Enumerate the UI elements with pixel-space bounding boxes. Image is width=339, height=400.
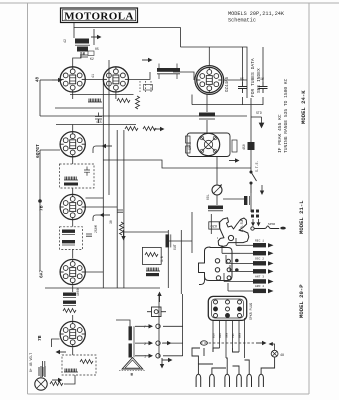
svg-text:OUT: OUT <box>173 244 177 250</box>
wire left lamp drop <box>42 361 44 377</box>
MOTOROLA logo box <box>61 8 138 23</box>
wire row3 connect <box>135 355 152 357</box>
wire mid horizontal y=198 <box>86 197 104 199</box>
resistor R2 <box>125 127 138 131</box>
wire V2 to IF1 <box>129 72 150 79</box>
wire rows right connect <box>163 326 183 356</box>
svg-text:SPKR PLUG: SPKR PLUG <box>249 303 253 320</box>
socket terminal row 3 <box>144 354 160 360</box>
svg-text:STD: STD <box>256 111 262 115</box>
svg-text:MODELS 20P,211,24K: MODELS 20P,211,24K <box>228 11 285 17</box>
svg-text:48: 48 <box>37 76 41 82</box>
svg-text:BLK: BLK <box>213 333 216 338</box>
svg-text:B+ 4B VOLT: B+ 4B VOLT <box>29 353 33 372</box>
choke row 6 <box>240 285 274 293</box>
svg-text:OZ44A5: OZ44A5 <box>226 76 230 92</box>
coil L9 below box <box>146 268 160 272</box>
arrow loom right <box>256 341 267 345</box>
wire left feed vertical <box>191 212 193 253</box>
capacitor C5 right of T3 <box>86 234 92 236</box>
wire right vertical x=251 <box>250 98 252 171</box>
resistor R3 <box>143 127 156 131</box>
coil L5 in T2 <box>64 183 78 186</box>
wire top bus <box>74 23 181 47</box>
svg-text:10: 10 <box>81 52 85 56</box>
wire left drop from antenna coil <box>73 28 75 38</box>
screen coil L2 <box>88 99 102 103</box>
wire long vertical x=103 <box>102 79 104 160</box>
small box pair x=186-190 <box>186 136 191 153</box>
wire left vertical x=40 mid <box>39 150 41 270</box>
socket lead labels rotated <box>213 333 242 338</box>
arrow IF arrow <box>142 58 153 62</box>
wire row1 connect <box>135 325 152 327</box>
dial lever cam plate <box>218 218 249 247</box>
wire y=232 run <box>124 231 168 233</box>
volume pot VR1 <box>212 184 222 195</box>
note IF PEAK 455 KC TUNING RANGE <box>277 78 289 153</box>
cable loom dashed <box>200 341 254 345</box>
wire osc stack to V7 <box>72 315 74 321</box>
wire IF box to V5 <box>72 188 74 194</box>
wire V5 bottom <box>72 220 74 227</box>
dashed gang link <box>140 81 151 92</box>
svg-text:1.B: 1.B <box>160 256 164 262</box>
svg-text:05: 05 <box>95 47 99 51</box>
wire section bottom bus <box>40 115 247 117</box>
oscillator coil L12 <box>63 293 76 298</box>
choke row 4 <box>240 269 274 274</box>
note FOR TUBES DATA SEE INDEX <box>250 58 262 97</box>
svg-text:FOR TUBES DATA: FOR TUBES DATA <box>250 58 256 97</box>
resistor R9 in box <box>80 360 93 364</box>
wires bracket to chokes <box>222 238 240 291</box>
plug prong 5 <box>247 374 252 387</box>
svg-text:455: 455 <box>96 120 102 124</box>
resistor R1 <box>117 99 130 103</box>
wire mid verticals x=117 <box>116 130 118 288</box>
svg-text:7B: 7B <box>39 205 45 211</box>
label cluster above V1 <box>81 47 99 61</box>
svg-text:OSC 2: OSC 2 <box>255 258 264 261</box>
socket lead wires down <box>213 318 245 358</box>
wire pot area to right column <box>223 193 251 212</box>
arrow into V4 <box>102 144 113 148</box>
choke row 1 <box>240 240 274 248</box>
wire upper right bus <box>181 47 248 98</box>
arrow antenna wave <box>91 35 102 39</box>
plug prong 3 <box>225 374 230 387</box>
capacitor C6 <box>117 210 123 212</box>
capacitor C1 trimmer <box>80 52 88 57</box>
svg-text:7B: 7B <box>37 335 43 341</box>
tuning gang box <box>187 133 230 157</box>
trimmer box right of gang <box>232 140 237 152</box>
coil comb right y199 <box>244 196 249 205</box>
wire long vertical x=109 <box>108 60 110 195</box>
svg-text:30: 30 <box>109 220 113 224</box>
tube V4 6Q7GT <box>60 132 85 157</box>
plug prong 4 <box>237 374 242 387</box>
wire section divider y=288 <box>45 287 160 289</box>
tube V5 7B <box>60 194 85 219</box>
label 6 terminal row 1 <box>144 324 160 330</box>
coil L14 in box <box>64 369 78 373</box>
svg-text:48: 48 <box>280 354 284 358</box>
pilot jewel circle 48 <box>269 342 279 357</box>
wire x=182.6 vertical <box>182 294 184 356</box>
arrow lamp lead <box>52 378 63 382</box>
junction dot left margin <box>38 199 42 203</box>
wire left AVC run <box>40 79 52 81</box>
svg-text:BRN: BRN <box>239 333 242 338</box>
tube V1 6K7 IF amp <box>60 67 85 92</box>
svg-text:1000: 1000 <box>76 288 80 296</box>
svg-text:VOL: VOL <box>206 194 210 200</box>
wire top right stubs <box>243 47 264 105</box>
choke row 3 <box>240 258 274 266</box>
ground arrow down at x=251 <box>251 117 264 128</box>
svg-text:MOTOROLA: MOTOROLA <box>64 11 134 23</box>
svg-text:250M: 250M <box>94 225 98 233</box>
wire V3 top lead <box>208 47 210 65</box>
wire V4 bottom to IF box <box>72 157 74 164</box>
filter dashed box <box>62 355 96 375</box>
plug prong 2 <box>210 374 215 387</box>
svg-text:ANT 3: ANT 3 <box>255 276 264 279</box>
arrow into V5 <box>100 213 111 217</box>
wire V3 bottom to gang <box>206 95 208 113</box>
IF transformer T3 dashed box <box>60 227 83 250</box>
cathode bus wire <box>70 94 134 96</box>
IF transformer T1 comb <box>157 64 180 80</box>
wire x=159 vertical <box>158 294 160 357</box>
wire V4 left to margin <box>40 149 60 151</box>
arrow down right col <box>260 185 264 195</box>
wire V6 bottom <box>72 286 74 289</box>
wire antenna coil to V1 <box>73 52 81 67</box>
svg-text:K2: K2 <box>90 57 94 61</box>
oscillator coil L13 <box>63 301 76 306</box>
arrow at R3 <box>154 127 165 131</box>
mounting bracket with holes <box>199 247 239 285</box>
wire hook V5 <box>93 215 102 221</box>
IF transformer T2 dashed box <box>60 164 95 188</box>
svg-text:REC 1: REC 1 <box>255 240 264 243</box>
wire L16 top hook <box>116 320 130 357</box>
svg-text:2: 2 <box>144 343 146 347</box>
svg-text:41: 41 <box>92 74 96 78</box>
small box label top <box>88 51 94 56</box>
arrow up at vibrator <box>157 292 161 303</box>
svg-text:RED: RED <box>219 333 222 338</box>
choke row 2 <box>240 251 274 256</box>
osc coil L3 comb <box>199 113 215 120</box>
wire x=103 lower run <box>102 160 104 288</box>
arrow mid right <box>229 158 240 162</box>
coil L10 below box <box>146 273 159 276</box>
junction dots right column <box>251 210 259 218</box>
svg-text:SPKR: SPKR <box>268 223 275 226</box>
wire lamp to box <box>64 375 75 384</box>
svg-text:GRD 4: GRD 4 <box>255 285 264 288</box>
svg-text:GRN: GRN <box>226 333 229 338</box>
speaker lead wire with plug <box>251 226 286 230</box>
oscillator coil L16 vertical comb <box>129 326 135 357</box>
wire V7 bottom <box>72 347 74 355</box>
wire right vertical x=181 <box>180 230 182 294</box>
svg-text:IF PEAK 455 KC: IF PEAK 455 KC <box>277 114 283 153</box>
capacitor C8 marks column <box>259 82 268 93</box>
wire osc stack top <box>72 288 74 292</box>
arrow AVC into V1 <box>52 78 63 82</box>
wire box2 to V6 <box>72 250 74 259</box>
antenna coil L15 left hatch <box>39 366 45 377</box>
wire V1 to V2 grid lead <box>85 78 103 80</box>
wire pot drop <box>216 157 218 186</box>
svg-text:MODEL 24-K: MODEL 24-K <box>300 90 307 124</box>
resistor R1b vertical <box>136 96 140 109</box>
wire osc coil into gang box <box>206 120 208 133</box>
arrow pair below dots <box>251 219 261 226</box>
tuning capacitor C3 gang <box>197 133 219 155</box>
resistor R8 zigzag <box>63 309 76 313</box>
arrow double bottom <box>160 358 164 369</box>
tone box R6 <box>142 247 161 264</box>
wire V3 right lead <box>224 79 247 81</box>
wire V1 cathode down <box>72 92 74 99</box>
wire V6 right leads <box>86 271 103 273</box>
arrow R5 <box>121 230 125 241</box>
antenna coil L1 <box>75 39 90 52</box>
coil L6 <box>62 230 75 235</box>
svg-text:1: 1 <box>144 356 146 360</box>
wire y=241 run <box>168 240 192 242</box>
plug prong 1 <box>196 374 201 387</box>
wire pot column down <box>211 214 218 238</box>
svg-text:YEL: YEL <box>232 333 235 338</box>
capacitor C7 marks column <box>238 82 247 93</box>
label 455 box <box>144 85 153 91</box>
capacitor C4 in T2 <box>84 167 90 176</box>
svg-text:S.T.E.: S.T.E. <box>255 160 259 172</box>
wire lower bus 2 <box>56 124 136 126</box>
resistor R4 on x=251 <box>242 142 255 150</box>
wire stub top cluster <box>93 29 95 45</box>
resistor R5 vertical pair <box>120 222 124 235</box>
svg-text:f: f <box>144 325 146 330</box>
wire right vertical x=168 <box>167 230 169 288</box>
wire pot to volume line <box>216 195 218 205</box>
capacitor C2 pair <box>95 113 102 124</box>
socket terminal row 2 <box>144 341 172 347</box>
svg-text:6A7: 6A7 <box>39 269 45 278</box>
coil L4 in T2 <box>64 177 78 181</box>
svg-text:05: 05 <box>240 77 244 81</box>
wire hook V4 left <box>93 146 104 153</box>
wire V7 left hook <box>52 339 60 347</box>
svg-text:A.B.SUP: A.B.SUP <box>240 219 244 232</box>
small value box near pot <box>209 222 220 230</box>
tube V7 7B output <box>60 321 85 346</box>
svg-text:42: 42 <box>64 39 68 43</box>
vertical coil L11 <box>166 234 171 247</box>
wire IF1 to V3 <box>173 72 194 80</box>
wire V5 right leads <box>86 206 118 208</box>
wire V4 top lead <box>72 125 74 132</box>
wire staircase bus to right <box>103 160 251 168</box>
resistor R10 lamp series <box>50 382 63 386</box>
wire V2 cathode down <box>115 92 117 99</box>
choke row 5 <box>240 276 274 284</box>
bottom interconnect wires <box>192 348 275 374</box>
vibrator VB1 <box>147 307 166 317</box>
svg-text:450: 450 <box>242 144 246 150</box>
switch S1 <box>250 171 257 193</box>
svg-text:MODEL 20-P: MODEL 20-P <box>298 284 305 318</box>
coil L7 <box>62 240 75 245</box>
arrow into V7 left <box>56 350 67 354</box>
wire screen bus y=108 <box>55 107 103 109</box>
tube V6 6A7 <box>60 259 85 284</box>
resistor R7 inside box <box>145 253 158 257</box>
svg-text:MODEL 21-L: MODEL 21-L <box>298 200 305 234</box>
svg-text:6Q7GT: 6Q7GT <box>35 144 41 158</box>
tube V2 det <box>103 67 128 92</box>
svg-text:TUNING RANGE 535 TO 1580 KC: TUNING RANGE 535 TO 1580 KC <box>283 78 289 153</box>
wire V3 bottom bus <box>192 95 247 105</box>
loop antenna triangle <box>119 358 146 371</box>
tube V3 converter <box>197 67 222 92</box>
wire row2 connect <box>135 342 152 344</box>
svg-text:Schematic: Schematic <box>228 18 256 24</box>
plug prong 6 <box>259 374 264 387</box>
power socket P1 <box>208 296 246 320</box>
output coil L8 comb <box>208 206 223 211</box>
pilot lamp PL1 <box>35 378 47 390</box>
wire left vertical x=40 <box>39 80 41 116</box>
wire mid verticals x=124 <box>123 130 125 288</box>
